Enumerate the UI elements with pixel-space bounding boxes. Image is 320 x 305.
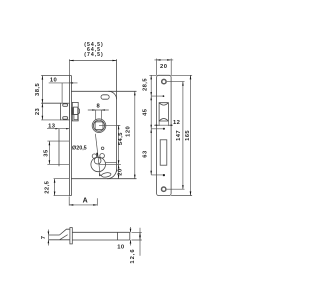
faceplate front outline xyxy=(157,75,172,195)
dim 35 xyxy=(48,141,50,164)
dim 165 xyxy=(171,75,192,195)
svg-text:28,5: 28,5 xyxy=(143,78,149,91)
latch head bevel xyxy=(60,229,70,240)
latch opening xyxy=(159,103,168,121)
hub centerline right xyxy=(99,124,120,126)
lock case outline xyxy=(71,59,136,179)
faceplate section xyxy=(70,228,72,244)
dim 28,5 xyxy=(149,75,163,96)
deadbolt thrown tip line xyxy=(58,129,60,167)
svg-text:63: 63 xyxy=(143,150,149,158)
cylinder centerline lower xyxy=(99,163,121,165)
deadbolt bottom edge xyxy=(47,163,69,165)
svg-text:8: 8 xyxy=(97,104,101,110)
svg-text:147: 147 xyxy=(176,130,182,141)
top screw hole xyxy=(162,79,166,83)
svg-text:7: 7 xyxy=(41,236,47,240)
svg-text:10: 10 xyxy=(117,244,124,250)
latch tail mechanism inside case xyxy=(72,102,80,121)
dim 12,6 xyxy=(132,228,142,256)
case profile xyxy=(72,232,130,240)
leader arrow top xyxy=(96,153,98,158)
cylinder centerline upper xyxy=(105,162,117,164)
dim 38,5 xyxy=(41,76,69,104)
svg-text:35: 35 xyxy=(44,149,50,157)
svg-text:22,5: 22,5 xyxy=(44,180,50,193)
deadbolt opening xyxy=(160,140,167,165)
svg-text:Ø20,5: Ø20,5 xyxy=(72,146,87,152)
dim line 64,5 xyxy=(69,59,116,75)
bottom screw hole xyxy=(162,187,166,191)
svg-text:(74,5): (74,5) xyxy=(84,52,104,58)
svg-text:12: 12 xyxy=(173,120,180,126)
svg-text:20: 20 xyxy=(118,168,124,175)
leader arrow bottom xyxy=(99,172,101,177)
oval slot in case top xyxy=(101,95,109,99)
dim 12 xyxy=(154,121,173,126)
dim text (54,5) 64,5 (74,5) xyxy=(84,42,104,58)
svg-text:38,5: 38,5 xyxy=(35,83,41,96)
svg-text:165: 165 xyxy=(185,130,191,141)
center dot handle xyxy=(163,128,165,130)
small rivet hole xyxy=(101,147,104,150)
dim 22,5 xyxy=(54,179,70,196)
dim 45 xyxy=(151,96,163,129)
dim 7 xyxy=(47,230,49,246)
deadbolt top edge xyxy=(47,140,69,142)
dim 63 xyxy=(151,129,163,175)
right lobe xyxy=(100,154,105,159)
faceplate (side view) xyxy=(69,76,71,196)
follower hub inner circle xyxy=(93,120,104,131)
dim 10 bottom xyxy=(130,227,132,246)
svg-text:23: 23 xyxy=(35,108,41,116)
cylinder hole circle xyxy=(91,157,106,172)
dim 20 right xyxy=(118,164,120,178)
dim 120 xyxy=(134,91,136,178)
svg-text:12,6: 12,6 xyxy=(130,248,136,263)
follower square 8mm xyxy=(95,122,103,130)
dim 147 xyxy=(167,82,185,190)
svg-text:45: 45 xyxy=(143,108,149,116)
latch top extension xyxy=(41,102,60,104)
svg-text:20: 20 xyxy=(160,64,167,70)
slanted oval below cylinder xyxy=(101,172,111,178)
svg-text:54,5: 54,5 xyxy=(118,132,124,145)
cylinder plug circle xyxy=(94,157,101,164)
svg-text:A: A xyxy=(83,198,88,205)
svg-text:120: 120 xyxy=(126,126,132,137)
latch bolt head (protruding) xyxy=(61,103,70,120)
latch stem xyxy=(49,235,60,240)
follower hub outer circle xyxy=(92,119,106,133)
center dot cylinder xyxy=(163,174,165,176)
center dot latch xyxy=(163,95,165,97)
left lobe xyxy=(92,154,96,158)
dim 54,5 right xyxy=(117,125,120,164)
latch bottom extension xyxy=(41,119,60,121)
dim 23 xyxy=(41,103,43,120)
diameter leader line xyxy=(95,134,100,173)
